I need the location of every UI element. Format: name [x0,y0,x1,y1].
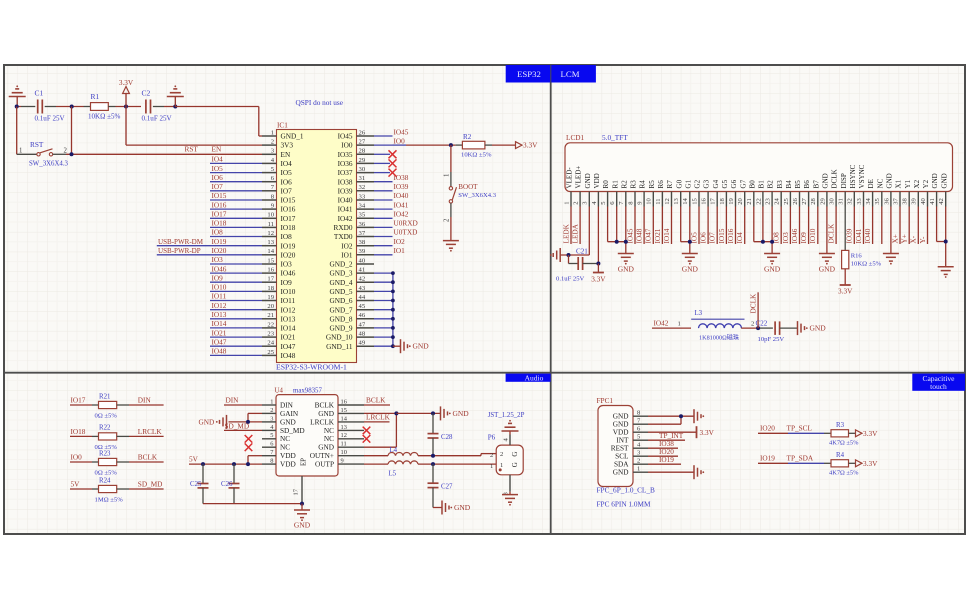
power 3.3V bar FPC [697,426,715,438]
svg-text:3.3V: 3.3V [700,429,715,437]
wire L4 to P6 pin2 [418,455,481,457]
svg-text:IO16: IO16 [212,201,227,209]
wire OUTN+ to L4 [364,455,388,457]
LCD1 pin 32 HSYNC [847,164,857,206]
section tab Capacitive touch [912,374,965,392]
svg-text:IO41: IO41 [394,201,409,209]
svg-text:8: 8 [270,458,273,465]
svg-text:GND: GND [318,410,334,418]
svg-text:IO10: IO10 [281,288,296,296]
junction [391,317,395,321]
svg-text:17: 17 [293,488,300,495]
svg-text:IO0: IO0 [341,142,353,150]
svg-text:G: G [511,462,519,467]
LCD1 pin 15 G2 [691,179,701,206]
svg-text:IC1: IC1 [277,122,288,130]
wire net IO45 [374,135,393,137]
svg-text:10: 10 [341,449,347,456]
wire IO0 to R2 [393,144,407,146]
svg-text:IO21: IO21 [654,228,662,243]
pin 2 3V3 [262,139,293,150]
net label DCLK [749,292,758,328]
wire net IO48 [643,207,645,245]
junction [173,105,177,109]
svg-text:19: 19 [267,294,274,301]
svg-text:5.0_TFT: 5.0_TFT [602,134,628,142]
svg-text:SDA: SDA [614,461,629,469]
svg-text:B6: B6 [803,180,811,189]
wire VDD to 3.3V [648,431,697,433]
svg-text:SD_MD: SD_MD [138,481,163,489]
wire net X- [917,207,919,245]
svg-text:X+: X+ [891,234,899,243]
pin 43 GND_5 [329,285,374,296]
svg-text:IO9: IO9 [800,232,808,244]
svg-text:IO21: IO21 [212,329,227,337]
svg-text:46: 46 [359,312,366,319]
svg-text:TP_SCL: TP_SCL [787,425,812,433]
pin 46 GND_8 [329,312,374,323]
svg-text:LEDA: LEDA [572,223,580,243]
svg-text:U0TXD: U0TXD [394,229,418,237]
LCD1 pin 8 R3 [627,180,637,207]
svg-text:GND: GND [940,173,948,188]
svg-text:R6: R6 [657,180,665,189]
wire IO20 [648,455,678,457]
FPC1 pin 4 REST [611,442,648,453]
svg-text:BCLK: BCLK [315,401,335,409]
svg-text:GND: GND [294,521,311,530]
FPC1 pin 8 GND [613,410,648,421]
svg-text:9: 9 [341,458,344,465]
svg-text:REST: REST [611,445,629,453]
svg-text:IO3: IO3 [782,232,790,244]
svg-text:VDD: VDD [280,452,296,460]
ground LCD left [559,248,561,262]
svg-text:BCLK: BCLK [138,454,158,462]
svg-text:IO4: IO4 [212,156,224,164]
svg-text:IO21: IO21 [281,334,296,342]
svg-text:11: 11 [268,221,274,228]
wire IO0 to BOOT switch [450,145,452,172]
svg-text:36: 36 [883,197,890,204]
power 3.3V R4 [856,460,879,468]
pin 10 IO17 [262,212,296,223]
svg-text:IO11: IO11 [212,293,227,301]
svg-text:37: 37 [359,230,366,237]
svg-text:IO13: IO13 [281,315,296,323]
svg-text:IO3: IO3 [212,256,224,264]
svg-text:IO18: IO18 [212,220,227,228]
capacitor C25 [190,464,209,504]
svg-text:2: 2 [271,139,274,146]
svg-text:IO42: IO42 [654,320,669,328]
wire gnd group pins 5-7 [608,207,626,254]
LCD1 pin 39 X2 [911,179,921,206]
svg-text:2: 2 [751,321,754,328]
wire net IO18 [210,226,262,228]
svg-text:36: 36 [359,221,366,228]
svg-text:GND: GND [199,418,215,426]
svg-text:42: 42 [359,276,366,283]
svg-text:10KΩ ±5%: 10KΩ ±5% [88,113,121,121]
ground LCD g2 [682,253,698,255]
svg-text:B2: B2 [767,180,775,189]
wire net IO9 [210,281,262,283]
svg-text:IO6: IO6 [212,174,224,182]
svg-text:IO16: IO16 [281,206,296,214]
svg-text:1: 1 [500,462,503,469]
LCD1 pin 6 R1 [609,180,619,207]
wire to LRCLK [129,435,164,437]
svg-text:0.1uF 25V: 0.1uF 25V [142,115,173,123]
wire 5V rail [189,463,262,465]
wire net IO38 [374,181,393,183]
svg-text:1: 1 [19,148,23,155]
svg-text:38: 38 [359,239,366,246]
svg-text:13: 13 [267,239,274,246]
svg-text:SD_MD: SD_MD [225,422,250,430]
svg-text:LEDK: LEDK [562,223,570,243]
wire net IO10 [817,207,819,245]
pin 24 IO47 [262,340,296,351]
svg-text:VDD: VDD [593,173,601,188]
svg-text:G0: G0 [675,179,683,188]
power 3.3V R3 [856,430,879,438]
svg-text:5V: 5V [189,456,199,464]
svg-text:3V3: 3V3 [281,142,294,150]
junction [391,290,395,294]
svg-text:11: 11 [341,441,347,448]
svg-text:IO40: IO40 [864,228,872,243]
wire C22 to gnd [780,327,798,329]
svg-text:L5: L5 [389,470,397,477]
wire R1 to C2 [116,106,142,108]
svg-text:LRCLK: LRCLK [138,428,163,436]
wire net IO15 [210,199,262,201]
svg-text:GND_4: GND_4 [329,279,352,287]
LCD1 pin 5 R0 [600,180,610,207]
svg-text:GND: GND [618,265,635,274]
svg-text:GND: GND [413,342,430,351]
svg-text:IO37: IO37 [338,169,353,177]
svg-text:39: 39 [911,197,918,204]
svg-text:DISP: DISP [840,173,848,188]
svg-text:IO6: IO6 [281,178,293,186]
svg-text:max98357: max98357 [293,388,322,395]
svg-text:IO14: IO14 [663,228,671,243]
wire net IO11 [210,300,262,302]
svg-text:2: 2 [500,451,503,458]
svg-text:17: 17 [267,276,274,283]
svg-text:47: 47 [359,321,366,328]
no-connect pin 28 [374,153,390,155]
svg-text:1: 1 [490,463,493,470]
svg-text:LCD1: LCD1 [566,134,585,142]
svg-text:0Ω ±5%: 0Ω ±5% [95,470,118,477]
LCD1 pin 7 R2 [618,180,628,207]
ground audio bottom [441,501,443,515]
svg-text:10: 10 [267,212,274,219]
wire to BCLK [129,461,164,463]
wire to SD_MD [129,488,164,490]
svg-text:LRCLK: LRCLK [310,418,335,426]
svg-text:B3: B3 [776,180,784,189]
wire switch to EN pin [66,153,262,155]
inductor L4 [388,447,418,456]
svg-text:IO46: IO46 [212,265,227,273]
svg-text:2: 2 [64,148,68,155]
wire net IO4 [744,207,746,245]
svg-text:10pF 25V: 10pF 25V [758,336,785,343]
svg-text:IO18: IO18 [71,428,86,436]
U4 pin 7 VDD [262,449,296,460]
wire net IO12 [210,309,262,311]
svg-text:0.1uF 25V: 0.1uF 25V [35,115,66,123]
svg-text:31: 31 [838,198,845,205]
wire net IO39 [853,207,855,245]
svg-text:IO20: IO20 [659,448,674,456]
junction [756,326,760,330]
svg-text:EN: EN [212,146,222,154]
svg-text:21: 21 [746,198,753,205]
svg-text:44: 44 [359,294,366,301]
svg-text:C28: C28 [441,434,453,441]
svg-text:1: 1 [270,398,273,405]
svg-text:29: 29 [819,197,826,204]
wire net DCLK [835,207,837,245]
junction [70,105,74,109]
no-connect pin 30 [374,172,390,174]
wire gnd pins 41-42 [937,207,946,267]
LCD1 pin 28 B7 [810,180,820,207]
wire net U0RXD [374,226,393,228]
section tab LCM [551,65,596,83]
svg-text:14: 14 [341,415,348,422]
svg-text:10KΩ ±5%: 10KΩ ±5% [461,152,492,159]
pin 39 IO1 [341,248,374,259]
svg-text:FPC_6P_1.0_CL_B: FPC_6P_1.0_CL_B [597,487,655,495]
no-connect pin 29 [374,162,390,164]
svg-text:2: 2 [573,201,580,204]
svg-text:21: 21 [267,312,274,319]
junction [232,462,236,466]
svg-text:GND: GND [764,265,781,274]
svg-text:1: 1 [563,201,570,204]
wire bead to C22 [741,327,758,329]
U4 pin 14 LRCLK [310,415,364,426]
LCD1 pin 20 G7 [737,179,747,206]
pin 21 IO13 [262,312,296,323]
svg-text:QSPI do not use: QSPI do not use [296,99,343,107]
U4 pin 4 SD_MD [262,424,305,435]
svg-text:17: 17 [710,197,717,204]
power 3.3V [119,79,134,107]
wire gnd rail [203,503,302,505]
junction [431,454,435,458]
svg-text:Audio: Audio [525,373,544,382]
svg-text:R4: R4 [836,452,845,459]
svg-text:C2: C2 [142,89,151,98]
wire net U0TXD [374,236,393,238]
LCD1 pin 21 B0 [746,180,756,207]
LCD1 pin 40 Y2 [920,179,930,206]
wire gnd pin 36 [890,207,892,254]
wire net IO16 [210,208,262,210]
svg-text:12: 12 [267,230,274,237]
wire BCLK [364,404,390,406]
capacitor C1 [35,89,66,123]
svg-text:ESP32-S3-WROOM-1: ESP32-S3-WROOM-1 [276,362,347,371]
svg-text:45: 45 [359,303,366,310]
svg-text:RST: RST [185,146,199,154]
svg-text:NC: NC [280,444,290,452]
wire gnd rail to pin 1 [175,106,258,108]
svg-text:G1: G1 [684,179,692,188]
U4 pin 15 GND [318,407,364,418]
svg-text:NC: NC [876,178,884,188]
pin 37 TXD0 [334,230,374,241]
wire net IO41 [863,207,865,245]
LCD1 pin 41 GND [929,173,939,206]
wire R2 to 3.3V [492,144,516,146]
pin 40 GND_2 [329,257,374,268]
wire net IO48 [210,354,262,356]
svg-text:IO7: IO7 [281,187,293,195]
svg-text:IO19: IO19 [760,455,775,463]
wire rail gnd to C1 [17,106,21,108]
wire gnd group pins 13-14 [681,207,690,254]
svg-text:IO9: IO9 [281,279,293,287]
svg-text:41: 41 [929,198,936,205]
svg-text:19: 19 [728,197,735,204]
svg-text:GND: GND [280,418,296,426]
svg-text:IO48: IO48 [212,348,227,356]
svg-text:43: 43 [359,285,366,292]
svg-text:IO45: IO45 [338,133,353,141]
svg-text:IO42: IO42 [338,215,353,223]
wire net IO2 [374,245,393,247]
svg-text:IO42: IO42 [394,211,409,219]
svg-text:IO20: IO20 [281,251,296,259]
svg-text:DIN: DIN [280,401,294,409]
svg-text:TP_SDA: TP_SDA [787,455,814,463]
junction [770,240,774,244]
junction [394,411,398,415]
svg-text:G2: G2 [694,179,702,188]
wire gnd group pins 21-23 [754,207,772,254]
LCD1 pin 9 R4 [637,180,647,207]
pin 19 IO11 [262,294,296,305]
svg-text:R23: R23 [99,450,111,457]
U4 pin 5 NC [262,432,290,443]
svg-text:IO8: IO8 [281,233,293,241]
section divider vertical [550,65,552,534]
svg-text:3.3V: 3.3V [523,142,538,150]
LCD1 pin 29 GND [819,173,829,206]
svg-text:22: 22 [267,321,274,328]
svg-text:IO40: IO40 [338,197,353,205]
svg-text:R3: R3 [630,180,638,189]
svg-text:IO20: IO20 [212,247,227,255]
svg-text:IO16: IO16 [727,228,735,243]
capacitor C27 [428,464,453,507]
junction [391,280,395,284]
junction [391,326,395,330]
svg-text:3.3V: 3.3V [119,79,134,87]
wire net IO21 [210,336,262,338]
wire net IO5 [698,207,700,245]
svg-text:IO46: IO46 [281,270,296,278]
svg-text:OUTN+: OUTN+ [310,452,334,460]
LCD1 pin 33 VSYNC [856,164,866,206]
svg-text:30: 30 [829,197,836,204]
junction [431,411,435,415]
pin 33 IO40 [338,193,374,204]
pin 27 IO0 [341,139,374,150]
svg-text:VDD: VDD [613,429,629,437]
U4 pin 17 EP [293,458,308,504]
svg-text:5V: 5V [71,481,81,489]
svg-text:X1: X1 [895,179,903,188]
svg-text:5: 5 [270,432,273,439]
svg-text:P6: P6 [488,434,496,442]
svg-text:48: 48 [359,331,366,338]
U4 pin 11 GND [318,441,364,452]
svg-text:X2: X2 [913,179,921,188]
wire net Y- [927,207,929,245]
svg-text:14: 14 [682,197,689,204]
wire net IO0 [374,144,393,146]
LCD1 pin 42 GND [938,173,948,206]
svg-text:IO47: IO47 [281,343,296,351]
svg-text:IO19: IO19 [659,456,674,464]
svg-text:SW_3X6X4.3: SW_3X6X4.3 [458,192,496,199]
svg-text:IO41: IO41 [855,228,863,243]
U4 pin 9 OUTP [315,458,364,469]
svg-text:R7: R7 [666,180,674,189]
svg-text:OUTP: OUTP [315,461,334,469]
svg-text:0Ω ±5%: 0Ω ±5% [95,413,118,420]
svg-text:R24: R24 [99,477,111,484]
svg-text:VLED+: VLED+ [575,166,583,189]
no-connect U4 pin13 [363,427,371,435]
FPC1 pin 6 VDD [613,426,648,437]
svg-text:IO0: IO0 [71,454,83,462]
junction [246,420,250,424]
wire net IO4 [210,162,262,164]
svg-text:GND_1: GND_1 [281,133,304,141]
wire net Y+ [908,207,910,245]
svg-text:IO19: IO19 [281,242,296,250]
LCD1 pin 22 B1 [755,180,765,207]
svg-text:R3: R3 [836,422,845,429]
svg-text:28: 28 [810,197,817,204]
svg-text:IO15: IO15 [212,192,227,200]
svg-text:IO17: IO17 [71,397,86,405]
resistor R16 [842,250,882,268]
svg-text:IO5: IO5 [212,165,224,173]
svg-text:16: 16 [701,197,708,204]
wire net IO7 [716,207,718,245]
FPC1 pin 5 INT [616,434,648,445]
svg-text:ESP32: ESP32 [517,69,541,79]
svg-text:IO2: IO2 [394,238,406,246]
wire net LEDA [579,207,581,245]
wire net IO42 [374,217,393,219]
svg-text:25: 25 [783,197,790,204]
svg-text:3.3V: 3.3V [591,276,606,284]
